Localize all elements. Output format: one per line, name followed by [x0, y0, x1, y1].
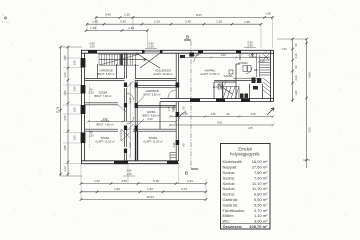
svg-text:6,80 m²: 6,80 m² — [254, 192, 268, 197]
svg-text:7,60 m²: 7,60 m² — [254, 170, 268, 175]
svg-text:BRUT. 5,50 m²: BRUT. 5,50 m² — [143, 92, 160, 96]
svg-text:B: B — [186, 35, 189, 40]
svg-text:Fürdőszoba:: Fürdőszoba: — [223, 208, 245, 213]
svg-text:2,39: 2,39 — [172, 105, 176, 111]
svg-text:2,70 m²: 2,70 m² — [254, 208, 268, 213]
svg-text:11,20 m²: 11,20 m² — [252, 186, 268, 191]
svg-text:2,85: 2,85 — [63, 145, 67, 151]
svg-text:1,90: 1,90 — [193, 53, 199, 57]
svg-text:1,40: 1,40 — [294, 90, 298, 96]
svg-text:2,55: 2,55 — [63, 115, 67, 121]
svg-text:4,55: 4,55 — [121, 179, 127, 183]
svg-text:2,10: 2,10 — [128, 142, 132, 148]
svg-text:2,39: 2,39 — [172, 142, 176, 148]
svg-text:9,06: 9,06 — [308, 72, 312, 78]
svg-text:Gardrob:: Gardrob: — [223, 202, 239, 207]
svg-text:2,10: 2,10 — [63, 90, 67, 96]
svg-text:B: B — [185, 171, 188, 176]
svg-text:1,50: 1,50 — [88, 91, 94, 95]
svg-text:2,39: 2,39 — [148, 45, 154, 49]
svg-text:Nappali:: Nappali: — [223, 165, 238, 170]
svg-text:8,01: 8,01 — [217, 121, 223, 125]
svg-text:1,40: 1,40 — [92, 20, 98, 24]
svg-text:1,50: 1,50 — [265, 12, 271, 16]
svg-text:Gardrob:: Gardrob: — [223, 197, 239, 202]
svg-text:1,95: 1,95 — [63, 55, 67, 61]
svg-text:1,50: 1,50 — [73, 107, 77, 113]
svg-text:11,28: 11,28 — [56, 106, 60, 113]
svg-text:1,50: 1,50 — [88, 134, 94, 138]
svg-text:5,00: 5,00 — [308, 127, 312, 133]
svg-text:5,40: 5,40 — [105, 13, 111, 17]
svg-text:1,75: 1,75 — [167, 106, 171, 112]
svg-text:0,90: 0,90 — [126, 169, 132, 173]
svg-text:1,60: 1,60 — [220, 53, 226, 57]
svg-text:1,50: 1,50 — [126, 172, 132, 176]
svg-text:1,25: 1,25 — [216, 20, 222, 24]
svg-text:WC: WC — [254, 68, 258, 72]
svg-text:1,05: 1,05 — [63, 72, 67, 78]
svg-text:Szoba:: Szoba: — [223, 181, 235, 186]
svg-text:2,39: 2,39 — [247, 44, 253, 48]
svg-text:Szoba:: Szoba: — [223, 175, 235, 180]
svg-text:1,45: 1,45 — [182, 112, 188, 116]
svg-text:1,36: 1,36 — [210, 112, 216, 116]
svg-text:2,10: 2,10 — [294, 53, 298, 59]
svg-text:15,64: 15,64 — [146, 195, 154, 199]
svg-text:ALAPT. 27,60 m²: ALAPT. 27,60 m² — [200, 72, 220, 76]
svg-text:Előtér:: Előtér: — [223, 213, 235, 218]
svg-text:1,10: 1,10 — [63, 166, 67, 172]
svg-text:helyiségjegyzék:: helyiségjegyzék: — [230, 152, 260, 157]
svg-text:ALAPT. 16,00 m²: ALAPT. 16,00 m² — [153, 72, 173, 76]
svg-text:1,45: 1,45 — [247, 126, 253, 130]
svg-text:Szoba:: Szoba: — [223, 192, 235, 197]
svg-text:Szoba:: Szoba: — [223, 170, 235, 175]
svg-text:11,10 m²: 11,10 m² — [252, 181, 268, 186]
svg-text:BRUT. 7,60 m²: BRUT. 7,60 m² — [96, 122, 113, 126]
svg-text:BRUT. 7,60 m²: BRUT. 7,60 m² — [94, 94, 111, 98]
svg-text:1,50: 1,50 — [73, 60, 77, 66]
svg-text:1,97: 1,97 — [94, 179, 100, 183]
svg-text:105,70 m²: 105,70 m² — [249, 224, 268, 229]
svg-text:1,50: 1,50 — [281, 47, 287, 51]
svg-text:SZOBA: SZOBA — [224, 74, 233, 78]
svg-text:WC:: WC: — [223, 219, 231, 224]
svg-text:7,65: 7,65 — [244, 20, 250, 24]
svg-text:ALAPT. 11,10 m²: ALAPT. 11,10 m² — [95, 139, 115, 143]
svg-text:Összesen:: Összesen: — [223, 224, 243, 229]
svg-text:Szoba:: Szoba: — [223, 186, 235, 191]
svg-text:1,50: 1,50 — [73, 135, 77, 141]
svg-text:2,91: 2,91 — [187, 179, 193, 183]
svg-text:1,48: 1,48 — [128, 26, 134, 30]
svg-text:1,20: 1,20 — [124, 13, 130, 17]
svg-text:1,10: 1,10 — [128, 97, 132, 103]
svg-text:27,60 m²: 27,60 m² — [252, 165, 268, 170]
svg-text:Közlekedő:: Közlekedő: — [223, 159, 243, 164]
svg-text:ALAPT. 11,20 m²: ALAPT. 11,20 m² — [143, 139, 163, 143]
svg-text:1,18: 1,18 — [90, 26, 96, 30]
svg-text:3,00 m²: 3,00 m² — [254, 219, 268, 224]
svg-text:5,36: 5,36 — [153, 179, 159, 183]
svg-text:8,07: 8,07 — [196, 13, 202, 17]
svg-text:2,40: 2,40 — [185, 20, 191, 24]
svg-text:Emeleti: Emeleti — [238, 146, 252, 151]
svg-text:7,60 m²: 7,60 m² — [254, 175, 268, 180]
svg-text:1,10 m²: 1,10 m² — [254, 213, 268, 218]
svg-text:16,00 m²: 16,00 m² — [252, 159, 268, 164]
svg-text:5,45: 5,45 — [120, 20, 126, 24]
svg-text:1,50: 1,50 — [73, 86, 77, 92]
svg-text:BRUT. 6,80 m²: BRUT. 6,80 m² — [142, 113, 159, 117]
svg-text:5,30: 5,30 — [147, 117, 153, 121]
svg-text:2,10: 2,10 — [248, 53, 254, 57]
svg-text:4,55: 4,55 — [250, 112, 256, 116]
svg-text:1,52: 1,52 — [147, 187, 153, 191]
svg-text:3,92: 3,92 — [114, 187, 120, 191]
svg-text:BRUT. 5,50 m²: BRUT. 5,50 m² — [97, 72, 114, 76]
svg-text:2,10: 2,10 — [154, 20, 160, 24]
svg-text:3,74: 3,74 — [181, 187, 187, 191]
svg-text:5,50 m²: 5,50 m² — [254, 202, 268, 207]
svg-text:1,50: 1,50 — [89, 44, 95, 48]
svg-text:5,50 m²: 5,50 m² — [254, 197, 268, 202]
svg-text:2,10: 2,10 — [294, 75, 298, 81]
